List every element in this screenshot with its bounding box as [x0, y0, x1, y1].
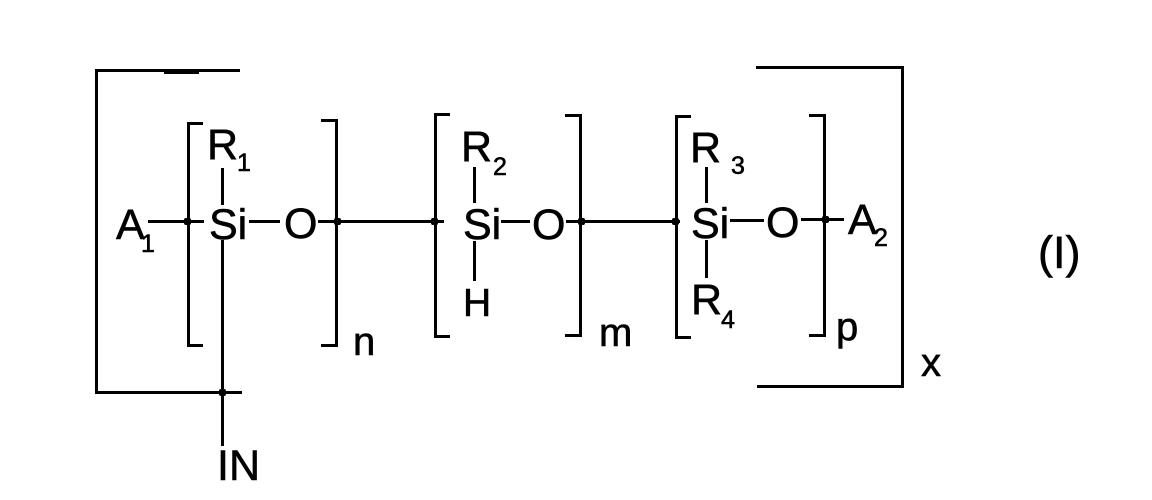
- outer bracket right vertical: [901, 66, 904, 388]
- outer bracket left bottom arm: [95, 391, 242, 394]
- atom A1: [116, 204, 145, 247]
- atom O group m: [532, 204, 565, 247]
- subscript x: [921, 343, 941, 383]
- junction dot chain/bracket group m right: [578, 218, 585, 225]
- junction dot chain/bracket group p left: [672, 218, 679, 225]
- bond R2 to Si2: [473, 167, 476, 203]
- repeat bracket ] of group n: [321, 119, 338, 347]
- repeat bracket [ of group n: [187, 122, 203, 347]
- subscript 2 of A2: [874, 226, 888, 251]
- atom O group p: [766, 202, 799, 245]
- repeat bracket [ of group m: [434, 113, 450, 338]
- substituent R1: [207, 124, 238, 167]
- bond A1 to Si1: [148, 220, 204, 223]
- bond Si3 down to R4: [705, 240, 708, 278]
- outer bracket right bottom arm: [757, 385, 904, 388]
- substituent H: [463, 284, 491, 323]
- junction dot chain/bracket group p right: [822, 216, 829, 223]
- atom Si group p: [691, 203, 729, 246]
- subscript 3 of R3: [731, 154, 745, 179]
- formula label (I): [1038, 230, 1080, 275]
- repeat bracket ] of group m: [565, 114, 582, 337]
- chain bond O1 through bracket to group m: [318, 220, 444, 223]
- junction dot bond-IN/outer bracket: [219, 389, 226, 396]
- subscript p: [836, 307, 858, 347]
- outer bracket right top arm: [756, 66, 904, 69]
- substituent R2: [461, 126, 492, 169]
- chain bond O2 through bracket to group p: [566, 220, 680, 223]
- label IN: [217, 445, 260, 488]
- subscript 4 of R4: [721, 308, 735, 333]
- outer bracket left vertical: [95, 69, 98, 394]
- bond Si2 to O2: [501, 220, 530, 223]
- subscript 1 of A1: [141, 232, 155, 257]
- subscript m: [599, 313, 632, 353]
- atom A2: [848, 199, 877, 242]
- bond R3 to Si3: [705, 167, 708, 203]
- bond R1 to Si1: [221, 168, 224, 205]
- repeat bracket [ of group p: [675, 115, 691, 339]
- substituent R3: [690, 127, 721, 170]
- subscript 1 of R1: [237, 151, 251, 176]
- junction dot chain/bracket group n right: [334, 218, 341, 225]
- atom Si group m: [463, 204, 501, 247]
- junction dot chain/bracket group m left: [431, 218, 438, 225]
- subscript 2 of R2: [493, 155, 507, 180]
- bond O3 through bracket to A2: [801, 218, 844, 221]
- repeat bracket ] of group p: [809, 114, 826, 337]
- bond Si1 to O1: [249, 220, 280, 223]
- atom Si group n: [209, 204, 247, 247]
- bond Si2 down to H: [473, 241, 476, 281]
- junction dot chain/bracket group n left: [184, 218, 191, 225]
- substituent R4: [691, 279, 722, 322]
- atom O group n: [284, 203, 317, 246]
- bond Si3 to O3: [730, 219, 764, 222]
- subscript n: [353, 322, 375, 362]
- bond Si1 down to IN: [221, 240, 224, 446]
- outer bracket left top arm: [95, 69, 240, 72]
